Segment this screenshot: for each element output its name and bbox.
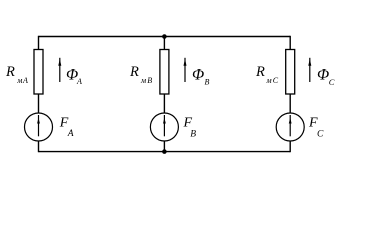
flux arrow ФС bbox=[308, 58, 311, 82]
wire branch C middle bbox=[289, 94, 291, 113]
wire branch C upper bbox=[289, 36, 291, 50]
label flux ФВ bbox=[192, 67, 210, 87]
svg-text:А: А bbox=[76, 77, 82, 86]
svg-text:R: R bbox=[129, 64, 139, 80]
label source FА bbox=[59, 116, 74, 140]
wire branch A upper bbox=[38, 36, 40, 50]
svg-text:мС: мС bbox=[266, 76, 280, 85]
label resistor RмС bbox=[255, 64, 279, 85]
flux arrow ФА bbox=[58, 58, 61, 82]
svg-text:R: R bbox=[5, 64, 15, 80]
svg-text:В: В bbox=[205, 78, 210, 87]
svg-text:F: F bbox=[183, 116, 193, 131]
wire branch B upper bbox=[163, 37, 165, 50]
svg-text:мА: мА bbox=[16, 76, 28, 85]
label source FС bbox=[308, 116, 324, 140]
wire branch B lower bbox=[163, 141, 165, 152]
source FС circle bbox=[276, 113, 304, 141]
node top junction bbox=[162, 34, 167, 39]
source FА circle bbox=[25, 113, 53, 141]
wire branch B middle bbox=[163, 94, 165, 113]
wire bottom rail bbox=[39, 151, 291, 153]
wire branch A middle bbox=[38, 94, 40, 113]
svg-text:С: С bbox=[329, 77, 335, 87]
svg-text:А: А bbox=[67, 129, 74, 139]
svg-text:В: В bbox=[190, 130, 196, 140]
wire branch A lower bbox=[38, 141, 40, 152]
wire top rail bbox=[39, 36, 291, 38]
svg-text:С: С bbox=[317, 129, 324, 139]
svg-text:мВ: мВ bbox=[140, 76, 153, 85]
svg-text:R: R bbox=[255, 64, 265, 80]
label flux ФС bbox=[317, 67, 335, 88]
label resistor RмВ bbox=[129, 64, 153, 85]
wire branch C lower bbox=[289, 141, 291, 152]
node bottom junction bbox=[162, 149, 167, 154]
label resistor RмА bbox=[5, 64, 29, 85]
label source FВ bbox=[183, 116, 197, 140]
svg-text:Φ: Φ bbox=[192, 67, 204, 84]
resistor RмВ bbox=[160, 50, 169, 95]
resistor RмС bbox=[286, 50, 295, 95]
source FВ circle bbox=[150, 113, 178, 141]
flux arrow ФВ bbox=[184, 58, 187, 82]
svg-text:F: F bbox=[308, 116, 318, 131]
svg-text:Φ: Φ bbox=[317, 67, 329, 84]
resistor RмА bbox=[34, 50, 43, 95]
label flux ФА bbox=[66, 67, 82, 86]
